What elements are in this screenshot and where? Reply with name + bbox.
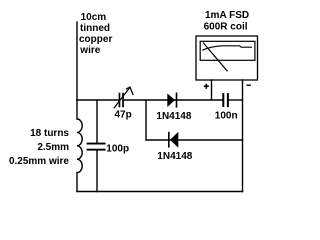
capacitor C3 100n plates: [222, 93, 229, 107]
svg-text:1mA FSD: 1mA FSD: [205, 10, 249, 21]
svg-text:100p: 100p: [106, 143, 129, 154]
wire: 100p upper lead: [96, 100, 98, 143]
wire: 100p lower lead: [96, 151, 98, 192]
svg-text:2.5mm: 2.5mm: [37, 142, 69, 153]
svg-text:wire: wire: [79, 45, 100, 56]
diode D1 1N4148: [167, 93, 177, 108]
minus terminal label: [247, 84, 251, 86]
wire: top rail right segment: [229, 99, 243, 101]
wire: branch down to second diode row: [145, 100, 147, 140]
svg-text:copper: copper: [79, 34, 112, 45]
wire: left rail upper: [76, 100, 78, 119]
diode D2 1N4148: [168, 132, 178, 148]
svg-text:1N4148: 1N4148: [156, 111, 191, 122]
wire: right rail: [242, 80, 244, 192]
meter M1 needle: [203, 43, 228, 72]
variable capacitor C1 47p plates: [119, 93, 124, 108]
antenna wire: [76, 22, 78, 100]
svg-text:100n: 100n: [215, 111, 238, 122]
wire: bottom rail: [77, 191, 243, 193]
label: 10cm tinned copper wire: [79, 12, 112, 56]
meter M1 outer case: [196, 36, 258, 80]
meter M1 inner window: [200, 41, 255, 60]
plus terminal label: [204, 84, 209, 89]
wire: top rail mid segment: [124, 99, 222, 101]
wire: left rail lower: [76, 173, 78, 192]
wire: top rail left segment: [77, 99, 119, 101]
svg-text:600R coil: 600R coil: [204, 22, 248, 33]
meter M1 scale arc: [202, 46, 252, 50]
svg-text:0.25mm wire: 0.25mm wire: [9, 156, 69, 167]
svg-text:1N4148: 1N4148: [157, 151, 192, 162]
label: 18 turns 2.5mm 0.25mm wire: [9, 128, 69, 167]
svg-text:47p: 47p: [115, 109, 132, 120]
svg-text:18 turns: 18 turns: [30, 128, 69, 139]
svg-text:10cm: 10cm: [81, 12, 107, 23]
capacitor C2 100p plates: [87, 143, 106, 151]
inductor L1 (18 turns coil): [77, 119, 82, 173]
wire: meter plus lead: [211, 80, 213, 100]
wire: second diode row: [146, 139, 243, 141]
svg-text:tinned: tinned: [80, 23, 110, 34]
variable capacitor C1 arrow: [114, 87, 133, 108]
